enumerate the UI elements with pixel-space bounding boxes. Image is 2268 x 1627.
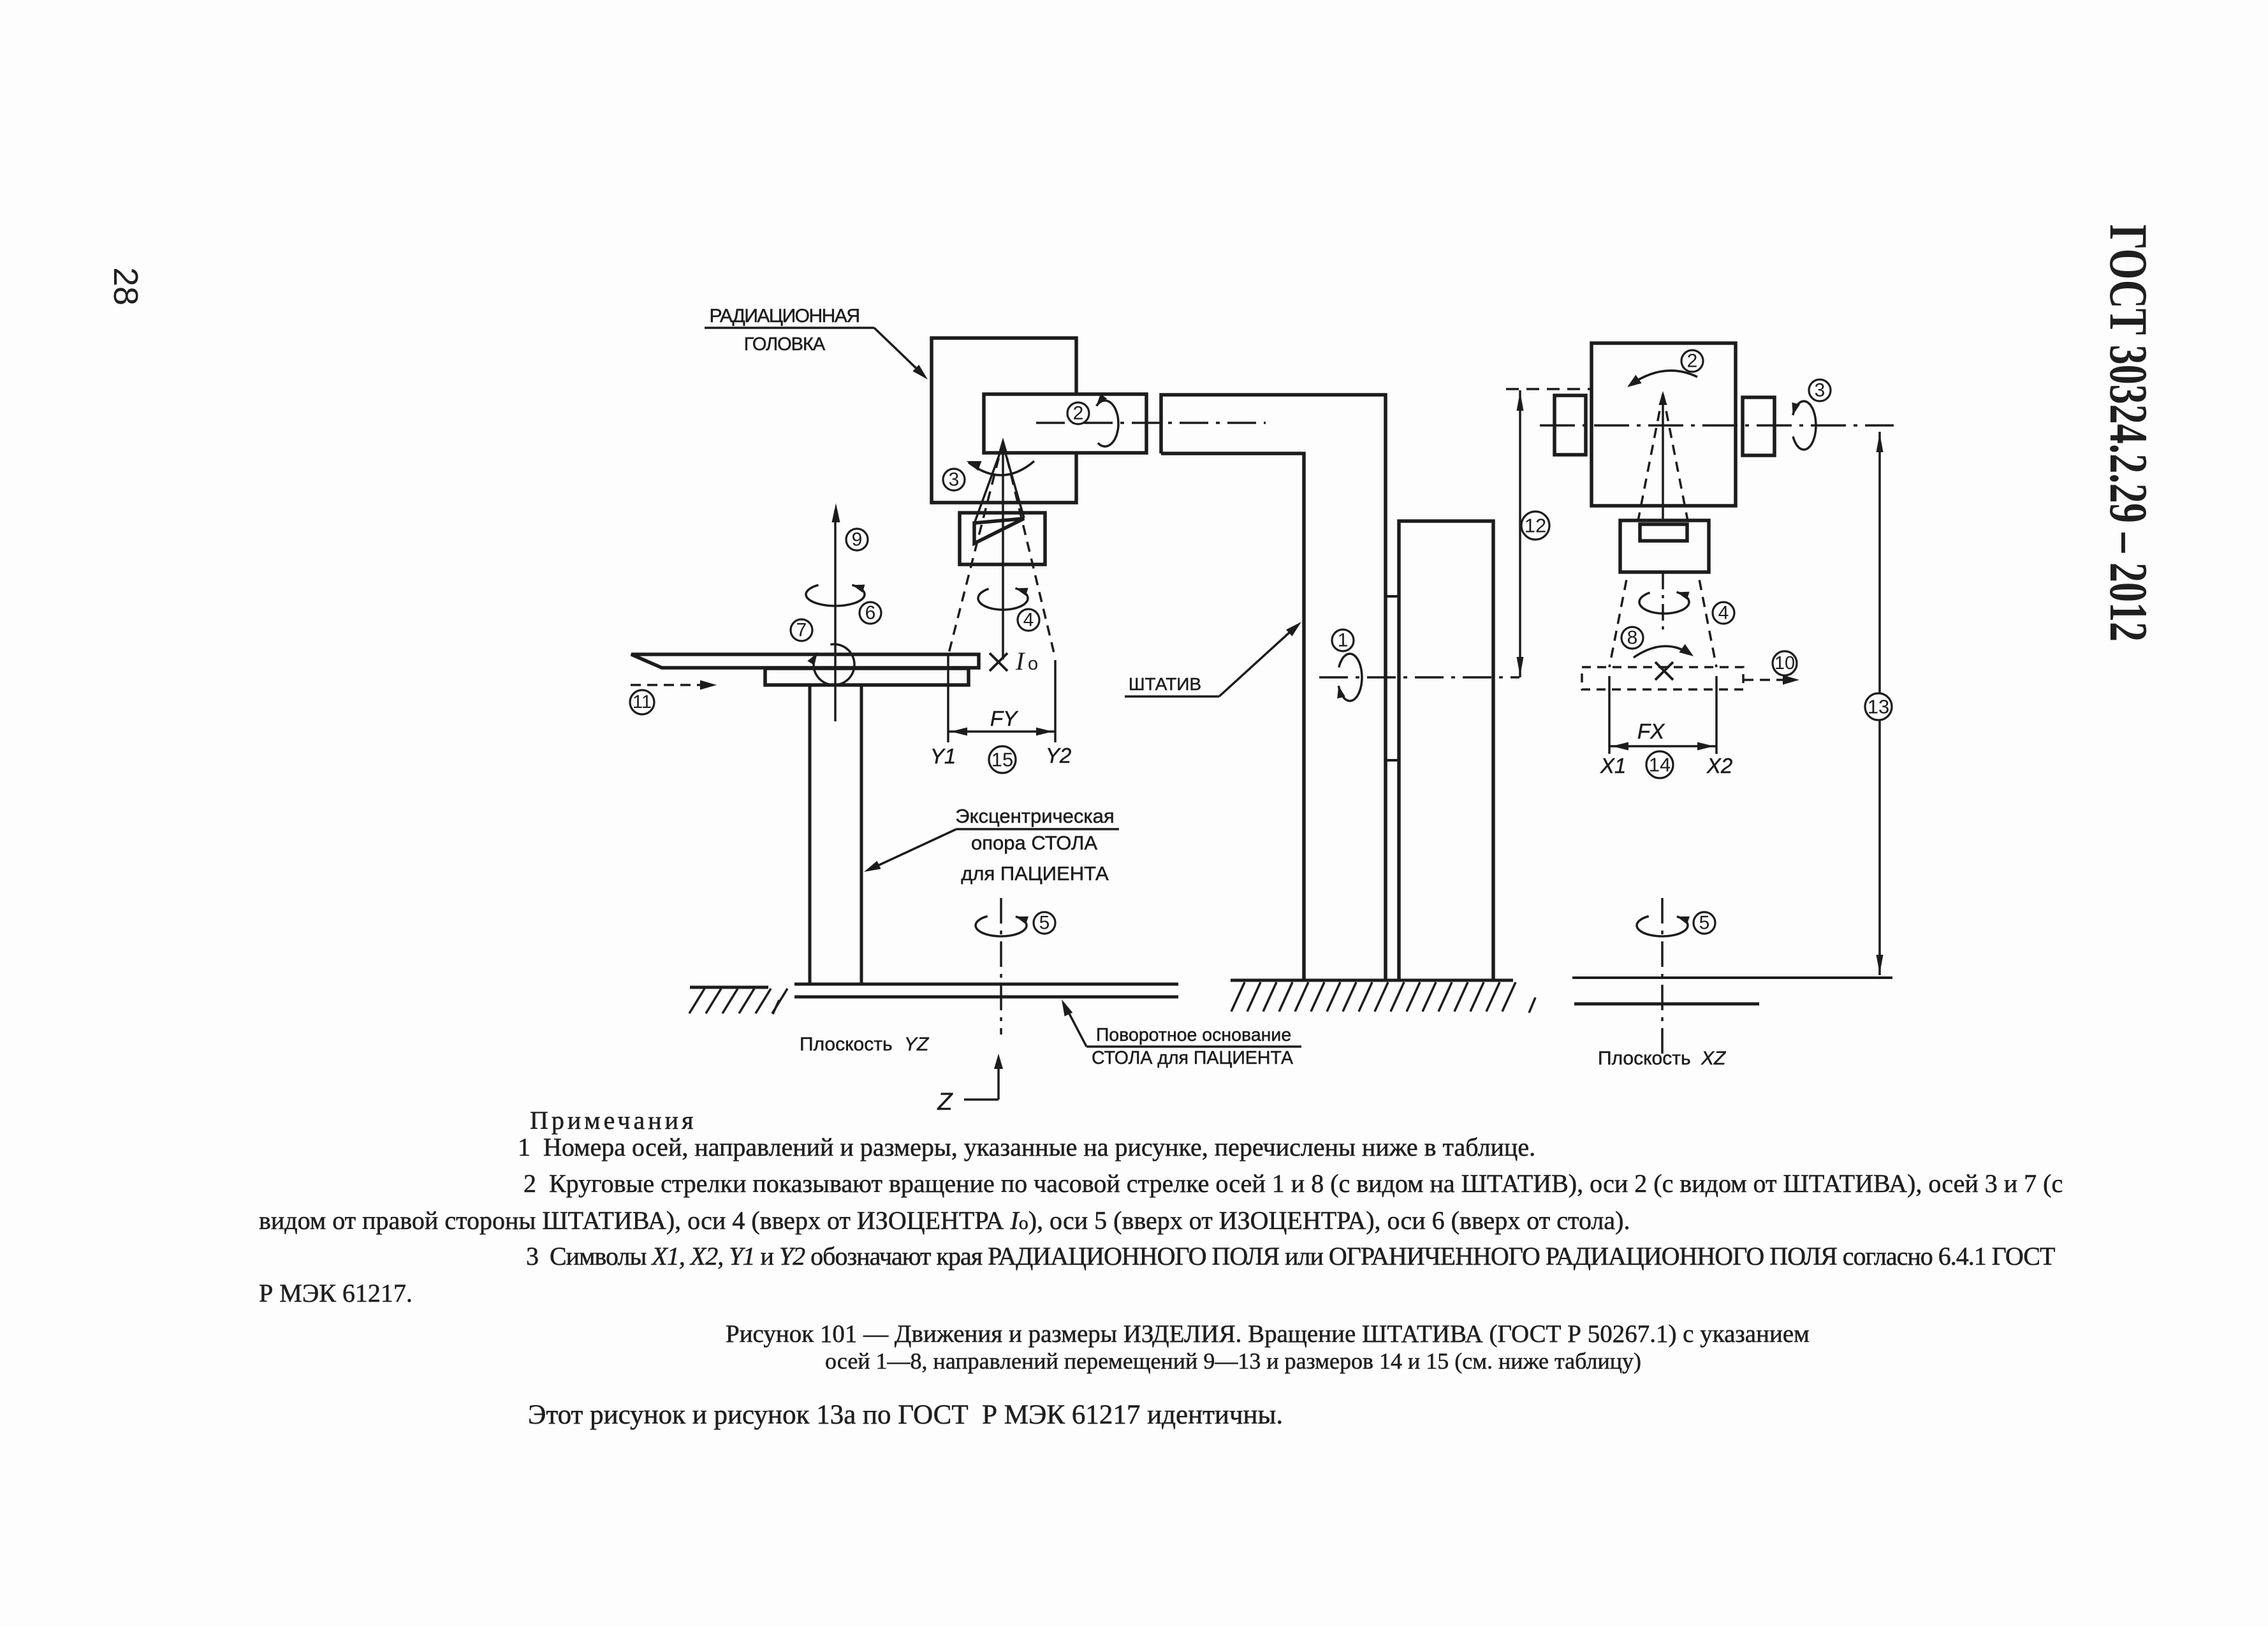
svg-text:Y2: Y2 <box>1046 744 1071 767</box>
svg-text:2: 2 <box>1687 351 1698 372</box>
svg-text:ГОЛОВКА: ГОЛОВКА <box>744 334 826 355</box>
svg-text:12: 12 <box>1525 515 1546 537</box>
svg-text:10: 10 <box>1774 653 1795 674</box>
svg-text:1: 1 <box>1338 630 1349 651</box>
svg-text:4: 4 <box>1023 610 1034 631</box>
svg-text:4: 4 <box>1718 603 1729 624</box>
svg-text:Эксцентрическая: Эксцентрическая <box>955 805 1114 827</box>
svg-text:9: 9 <box>852 529 863 550</box>
svg-text:3: 3 <box>949 469 960 490</box>
svg-text:5: 5 <box>1039 913 1050 934</box>
svg-text:3: 3 <box>1815 380 1825 401</box>
svg-text:11: 11 <box>633 692 652 712</box>
svg-text:Плоскость: Плоскость <box>1598 1048 1691 1069</box>
svg-text:8: 8 <box>1627 628 1638 649</box>
svg-text:5: 5 <box>1699 913 1710 934</box>
svg-text:X1: X1 <box>1600 754 1626 777</box>
svg-text:РАДИАЦИОННАЯ: РАДИАЦИОННАЯ <box>710 306 860 327</box>
svg-text:ШТАТИВ: ШТАТИВ <box>1129 674 1201 694</box>
svg-text:6: 6 <box>865 603 876 624</box>
svg-text:13: 13 <box>1868 696 1889 718</box>
svg-text:YZ: YZ <box>904 1034 930 1055</box>
svg-text:15: 15 <box>991 749 1013 771</box>
svg-text:7: 7 <box>796 620 807 641</box>
svg-text:o: o <box>1028 654 1038 674</box>
svg-text:для ПАЦИЕНТА: для ПАЦИЕНТА <box>961 862 1109 885</box>
svg-text:FX: FX <box>1637 719 1665 743</box>
svg-text:Поворотное основание: Поворотное основание <box>1096 1025 1291 1045</box>
svg-text:XZ: XZ <box>1701 1048 1727 1069</box>
svg-text:FY: FY <box>990 707 1018 730</box>
svg-text:I: I <box>1015 647 1025 675</box>
svg-text:СТОЛА для ПАЦИЕНТА: СТОЛА для ПАЦИЕНТА <box>1092 1048 1293 1068</box>
svg-text:Плоскость: Плоскость <box>800 1034 893 1055</box>
svg-text:опора СТОЛА: опора СТОЛА <box>971 832 1097 854</box>
svg-text:14: 14 <box>1649 754 1671 776</box>
svg-text:Y1: Y1 <box>930 744 956 768</box>
svg-text:X2: X2 <box>1706 754 1732 777</box>
svg-text:Z: Z <box>937 1089 953 1115</box>
svg-text:2: 2 <box>1073 403 1084 424</box>
